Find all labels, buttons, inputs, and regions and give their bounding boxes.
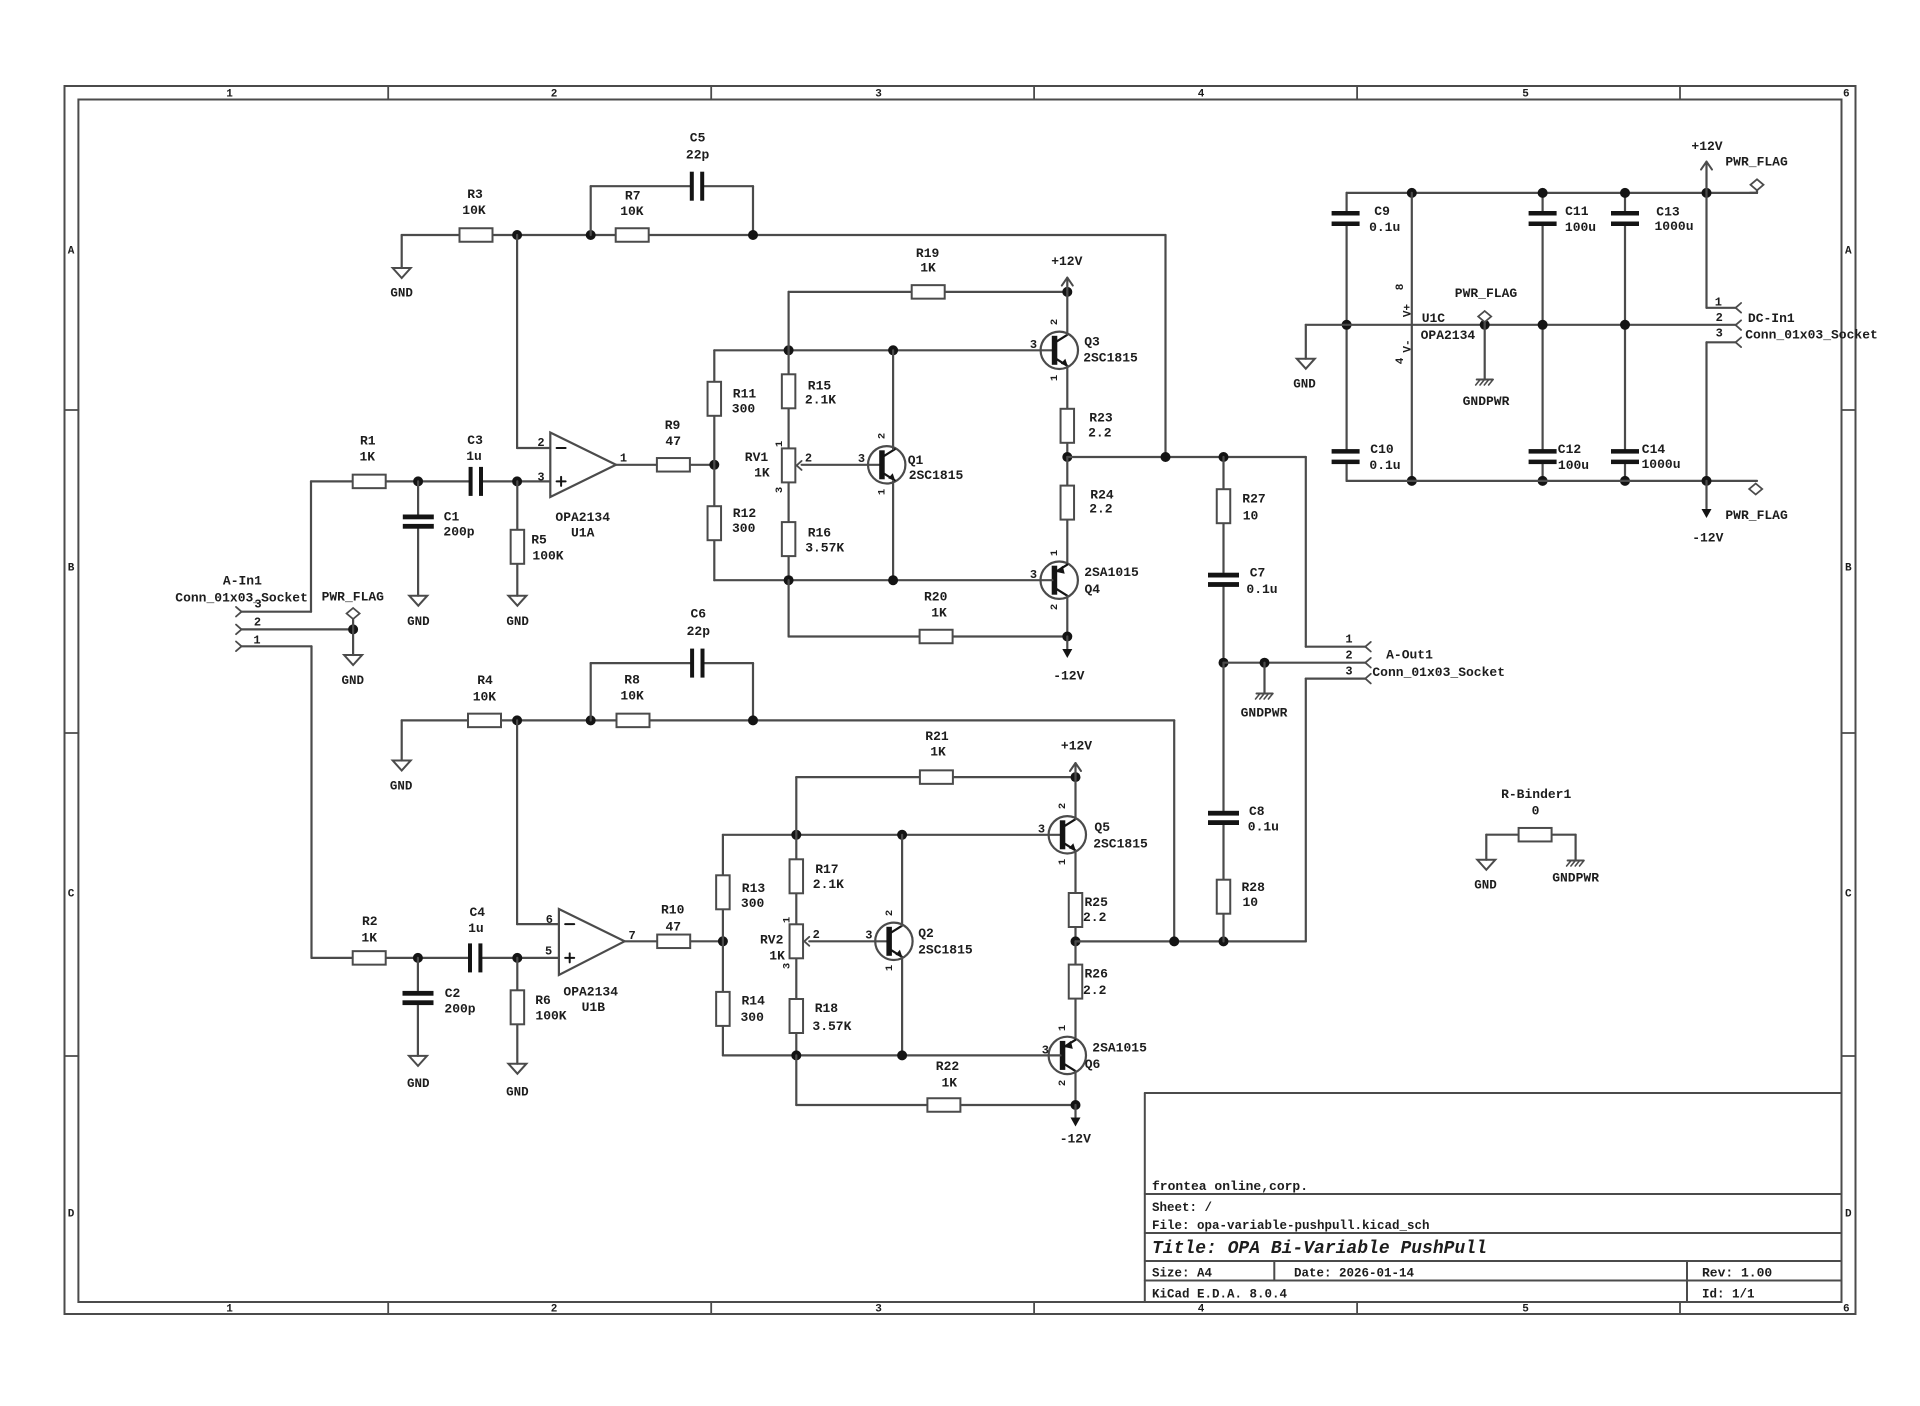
node junction R4 out <box>512 715 522 725</box>
svg-text:C: C <box>1845 889 1852 901</box>
resistor R6 <box>511 990 525 1024</box>
svg-text:Date: 2026-01-14: Date: 2026-01-14 <box>1294 1267 1415 1281</box>
wire PSU left rail C9 C10 <box>1345 193 1347 211</box>
svg-text:22p: 22p <box>687 624 711 639</box>
wire Q5 emitter to R25 <box>1074 851 1076 942</box>
svg-text:C13: C13 <box>1656 204 1680 219</box>
svg-text:300: 300 <box>741 896 765 911</box>
svg-text:4: 4 <box>1395 357 1407 364</box>
svg-text:Conn_01x03_Socket: Conn_01x03_Socket <box>1745 328 1878 343</box>
svg-text:3: 3 <box>865 928 872 942</box>
svg-text:2.2: 2.2 <box>1089 501 1113 516</box>
svg-text:GND: GND <box>506 615 529 629</box>
svg-text:1u: 1u <box>468 921 484 936</box>
svg-text:2SC1815: 2SC1815 <box>909 468 964 483</box>
wire R20 branch <box>787 580 789 636</box>
svg-text:V-: V- <box>1403 339 1415 352</box>
svg-text:1K: 1K <box>754 465 770 480</box>
resistor R23 <box>1061 409 1075 443</box>
wire RV2 wiper to Q2 base <box>809 940 886 942</box>
connector DC-In1 <box>1736 303 1742 313</box>
svg-text:10K: 10K <box>620 689 644 704</box>
power +12V (B) <box>1071 772 1081 782</box>
svg-text:47: 47 <box>665 919 681 934</box>
svg-text:R24: R24 <box>1090 487 1114 502</box>
svg-text:1: 1 <box>877 489 889 495</box>
resistor R24 <box>1061 486 1075 520</box>
svg-text:47: 47 <box>665 434 681 449</box>
svg-text:2: 2 <box>1345 649 1352 663</box>
svg-text:1K: 1K <box>769 949 785 964</box>
svg-text:D: D <box>1845 1209 1852 1221</box>
ground GNDPWR (PSU) <box>1484 325 1486 379</box>
svg-text:R19: R19 <box>916 246 940 261</box>
wire feedback to output node <box>1164 235 1166 457</box>
svg-text:1: 1 <box>253 633 260 647</box>
svg-text:2: 2 <box>805 452 812 466</box>
svg-text:6: 6 <box>1843 1304 1850 1316</box>
resistor R11 <box>708 382 722 416</box>
svg-text:Q4: Q4 <box>1084 582 1100 597</box>
potentiometer RV2 <box>790 924 804 958</box>
op-amp U1C power unit <box>1407 188 1417 198</box>
ground GND (C2) <box>409 1056 427 1066</box>
svg-text:300: 300 <box>732 402 756 417</box>
wire A output row <box>1067 456 1306 458</box>
svg-text:1: 1 <box>1345 633 1352 647</box>
wire A base top rail <box>714 349 1052 351</box>
svg-text:R14: R14 <box>741 993 765 1008</box>
svg-text:C5: C5 <box>690 130 706 145</box>
node junction GNDPWR stub <box>1260 658 1270 668</box>
wire DC-In pin3 <box>1707 341 1736 343</box>
node junction C5 right <box>748 230 758 240</box>
node junction C11 top <box>1538 188 1548 198</box>
svg-text:3: 3 <box>1038 823 1045 837</box>
power +12V (A) <box>1062 287 1072 297</box>
svg-text:-12V: -12V <box>1060 1131 1091 1146</box>
svg-text:3: 3 <box>875 1304 882 1316</box>
svg-text:10K: 10K <box>473 690 497 705</box>
svg-text:C9: C9 <box>1374 204 1390 219</box>
wire B base top rail <box>723 834 1061 836</box>
svg-text:Q6: Q6 <box>1085 1057 1101 1072</box>
wire U1A output <box>616 464 714 466</box>
svg-text:R25: R25 <box>1084 895 1108 910</box>
svg-text:A: A <box>68 246 75 258</box>
svg-text:1: 1 <box>1057 859 1069 865</box>
svg-text:1: 1 <box>782 917 794 923</box>
wire A-Out pin3 to channel B <box>1306 677 1366 679</box>
svg-text:1000u: 1000u <box>1641 457 1680 472</box>
wire C2 down <box>417 958 419 991</box>
svg-text:GNDPWR: GNDPWR <box>1463 394 1510 409</box>
svg-text:1: 1 <box>774 441 786 447</box>
svg-text:B: B <box>68 563 75 575</box>
svg-text:Id: 1/1: Id: 1/1 <box>1702 1288 1755 1302</box>
svg-text:GND: GND <box>506 1086 529 1100</box>
op-amp U1B <box>559 909 625 975</box>
svg-text:Conn_01x03_Socket: Conn_01x03_Socket <box>175 590 308 605</box>
svg-text:R23: R23 <box>1089 410 1113 425</box>
svg-text:2: 2 <box>877 433 889 439</box>
resistor R16 <box>782 522 796 556</box>
node junction A output <box>1062 452 1072 462</box>
resistor R5 <box>511 530 525 564</box>
capacitor C13 <box>1611 211 1639 216</box>
capacitor C4 <box>468 943 472 972</box>
svg-text:1: 1 <box>884 965 896 971</box>
svg-text:1: 1 <box>1057 1025 1069 1031</box>
svg-text:10: 10 <box>1242 895 1258 910</box>
svg-text:R11: R11 <box>733 386 757 401</box>
transistor Q1 <box>868 446 905 483</box>
svg-text:0.1u: 0.1u <box>1369 458 1400 473</box>
power flag PWR_FLAG (PSU mid) <box>1480 320 1490 330</box>
svg-text:3: 3 <box>782 963 794 969</box>
wire Q4 collector <box>1066 596 1068 636</box>
wire R24 to Q4 <box>1066 457 1068 564</box>
wire op-amp pin6 <box>516 720 518 924</box>
svg-text:22p: 22p <box>686 147 710 162</box>
svg-text:Q2: Q2 <box>918 926 934 941</box>
node junction R17 top <box>791 830 801 840</box>
svg-text:2SC1815: 2SC1815 <box>1083 350 1138 365</box>
svg-text:C4: C4 <box>469 905 485 920</box>
resistor R15 <box>782 374 796 408</box>
wire R26 to Q6 <box>1074 941 1076 1039</box>
node junction R28 bottom <box>1219 936 1229 946</box>
transistor Q3 <box>1041 332 1078 369</box>
svg-text:3.57K: 3.57K <box>812 1019 851 1034</box>
svg-text:300: 300 <box>740 1010 764 1025</box>
svg-text:A-Out1: A-Out1 <box>1386 648 1433 663</box>
svg-text:+12V: +12V <box>1051 254 1082 269</box>
capacitor C14 <box>1611 449 1639 454</box>
node junction PSU GND <box>1342 320 1352 330</box>
node junction C14 bottom <box>1620 476 1630 486</box>
wire R27 C7 chain <box>1222 457 1224 572</box>
node junction R15 top <box>784 345 794 355</box>
wire U1B output <box>625 940 723 942</box>
svg-text:5: 5 <box>1522 88 1529 100</box>
wire PSU top rail <box>1347 192 1757 194</box>
resistor R18 <box>790 999 804 1033</box>
svg-text:GNDPWR: GNDPWR <box>1552 871 1599 886</box>
svg-text:200p: 200p <box>444 1001 475 1016</box>
svg-text:R-Binder1: R-Binder1 <box>1501 787 1571 802</box>
resistor R2 <box>353 951 386 965</box>
node junction C11 bottom <box>1538 320 1548 330</box>
wire C5 branch <box>590 186 592 235</box>
resistor R3 <box>460 228 493 242</box>
node junction R10 out <box>718 936 728 946</box>
svg-text:R16: R16 <box>808 525 832 540</box>
capacitor C9 <box>1332 211 1360 216</box>
svg-text:0.1u: 0.1u <box>1246 582 1277 597</box>
resistor R7 <box>616 228 649 242</box>
svg-text:R28: R28 <box>1241 880 1265 895</box>
wire Q3 collector <box>1066 292 1068 335</box>
svg-text:6: 6 <box>1843 88 1850 100</box>
svg-text:-12V: -12V <box>1053 668 1084 683</box>
wire RV1 wiper to Q1 base <box>802 464 880 466</box>
svg-text:File: opa-variable-pushpull.ki: File: opa-variable-pushpull.kicad_sch <box>1152 1219 1430 1233</box>
svg-text:R20: R20 <box>924 589 948 604</box>
svg-text:Size: A4: Size: A4 <box>1152 1267 1213 1281</box>
svg-text:2: 2 <box>1049 319 1061 325</box>
svg-text:frontea online,corp.: frontea online,corp. <box>1152 1179 1308 1194</box>
node junction R27 top <box>1219 452 1229 462</box>
resistor R14 <box>716 992 730 1026</box>
wire R17 RV2 R18 rail <box>795 835 797 1056</box>
svg-text:1: 1 <box>1715 296 1722 310</box>
svg-text:DC-In1: DC-In1 <box>1748 311 1795 326</box>
svg-text:GND: GND <box>390 780 413 794</box>
node junction -12V (B) <box>1071 1100 1081 1110</box>
wire op-amp pin2 <box>516 235 518 448</box>
svg-text:C3: C3 <box>467 433 483 448</box>
wire A-In pin1 to channel B <box>242 645 312 647</box>
svg-text:R3: R3 <box>467 187 483 202</box>
svg-text:3: 3 <box>1345 665 1352 679</box>
node junction Q2 collector rail <box>897 830 907 840</box>
svg-text:2: 2 <box>551 88 558 100</box>
svg-text:-12V: -12V <box>1692 530 1723 545</box>
svg-text:0.1u: 0.1u <box>1369 220 1400 235</box>
capacitor C1 <box>403 515 434 520</box>
power +12V (PSU) <box>1702 188 1712 198</box>
power -12V (A) <box>1066 637 1068 649</box>
wire R22 branch <box>795 1055 797 1105</box>
svg-text:C8: C8 <box>1249 804 1265 819</box>
svg-text:Q1: Q1 <box>908 453 924 468</box>
node junction Q1 collector rail <box>888 345 898 355</box>
node junction B output <box>1071 936 1081 946</box>
capacitor C11 <box>1529 211 1557 216</box>
svg-text:U1A: U1A <box>571 525 595 540</box>
wire A bottom rail <box>714 579 1052 581</box>
wire C11 C12 rail <box>1541 193 1543 211</box>
svg-text:3: 3 <box>1716 327 1723 341</box>
svg-text:R7: R7 <box>625 188 641 203</box>
wire Q6 collector <box>1074 1071 1076 1105</box>
wire C1 down <box>417 481 419 514</box>
ground GND (C1) <box>409 596 427 606</box>
svg-text:OPA2134: OPA2134 <box>563 984 618 999</box>
svg-text:R27: R27 <box>1242 491 1265 506</box>
resistor R25 <box>1069 893 1083 927</box>
svg-text:R12: R12 <box>733 506 757 521</box>
svg-text:C12: C12 <box>1558 442 1582 457</box>
node junction -12V (A) <box>1062 632 1072 642</box>
svg-text:2.2: 2.2 <box>1083 983 1107 998</box>
wire C8 R28 chain <box>1222 663 1224 811</box>
svg-text:4: 4 <box>1198 88 1205 100</box>
svg-text:C11: C11 <box>1565 204 1589 219</box>
svg-text:PWR_FLAG: PWR_FLAG <box>322 589 385 604</box>
svg-text:R5: R5 <box>531 532 547 547</box>
resistor R28 <box>1217 880 1231 914</box>
resistor R13 <box>716 875 730 909</box>
svg-text:2SC1815: 2SC1815 <box>1093 836 1148 851</box>
resistor R22 <box>927 1098 960 1112</box>
node junction C5 left <box>586 230 596 240</box>
svg-text:2: 2 <box>884 910 896 916</box>
wire DC-In pin1 <box>1705 193 1707 308</box>
svg-text:GND: GND <box>407 1077 430 1091</box>
svg-text:C10: C10 <box>1370 442 1394 457</box>
power -12V (B) <box>1074 1105 1076 1117</box>
svg-text:R9: R9 <box>665 418 681 433</box>
power -12V (PSU) <box>1705 481 1707 509</box>
svg-text:Q3: Q3 <box>1084 334 1100 349</box>
capacitor C3 <box>469 467 473 496</box>
svg-text:2: 2 <box>813 928 820 942</box>
svg-text:1: 1 <box>1049 550 1061 556</box>
wire B input <box>312 957 469 959</box>
svg-text:U1C: U1C <box>1422 311 1446 326</box>
wire C13 C14 rail <box>1624 193 1626 211</box>
power flag PWR_FLAG (A-In) <box>352 619 354 629</box>
svg-text:100K: 100K <box>532 548 563 563</box>
potentiometer RV1 <box>782 448 796 482</box>
wire Q3 emitter to R23 <box>1066 366 1068 457</box>
capacitor C5 <box>690 172 694 201</box>
svg-text:R22: R22 <box>936 1059 960 1074</box>
svg-text:B: B <box>1845 563 1852 575</box>
ground GND (R5) <box>508 596 526 606</box>
wire B output row <box>1076 940 1306 942</box>
node junction U1C V- <box>1407 476 1417 486</box>
wire B feedback to output node <box>1173 720 1175 941</box>
ground GND (A feedback) <box>393 268 411 278</box>
svg-text:Title: OPA Bi-Variable PushPul: Title: OPA Bi-Variable PushPull <box>1152 1239 1487 1259</box>
wire A-Out pin2 row <box>1224 662 1366 664</box>
svg-text:2: 2 <box>1049 604 1061 610</box>
wire C6 branch <box>590 663 592 720</box>
node junction R3 out <box>512 230 522 240</box>
transistor Q4 (PNP) <box>1041 562 1078 599</box>
node junction C13 top <box>1620 188 1630 198</box>
svg-text:3: 3 <box>1030 338 1037 352</box>
svg-text:10K: 10K <box>462 203 486 218</box>
svg-text:2.2: 2.2 <box>1088 425 1112 440</box>
node junction B fb drop <box>1169 936 1179 946</box>
svg-text:C14: C14 <box>1642 442 1666 457</box>
node junction C7 bottom <box>1219 658 1229 668</box>
node junction R18 bottom <box>791 1050 801 1060</box>
capacitor C2 <box>403 991 434 996</box>
node junction R9 out <box>709 460 719 470</box>
svg-text:1K: 1K <box>941 1076 957 1091</box>
wire A output to A-Out pin1 <box>1305 457 1307 647</box>
svg-text:C: C <box>68 889 75 901</box>
node junction -12V (PSU) <box>1702 476 1712 486</box>
svg-text:R6: R6 <box>535 993 551 1008</box>
svg-text:2.1K: 2.1K <box>805 393 836 408</box>
ground GND (PSU) <box>1297 359 1315 369</box>
svg-text:1: 1 <box>226 88 233 100</box>
resistor R9 <box>657 458 690 472</box>
svg-text:C2: C2 <box>445 986 461 1001</box>
resistor R21 <box>920 770 953 784</box>
svg-text:2.1K: 2.1K <box>813 877 844 892</box>
svg-text:6: 6 <box>546 913 553 927</box>
svg-text:2: 2 <box>1716 311 1723 325</box>
svg-text:A: A <box>1845 246 1852 258</box>
wire R-Binder1 <box>1486 834 1518 836</box>
svg-text:2: 2 <box>1057 1080 1069 1086</box>
transistor Q2 <box>875 923 912 960</box>
title block <box>1144 1093 1146 1302</box>
node junction C12 bottom <box>1538 476 1548 486</box>
node junction C6 left <box>586 715 596 725</box>
wire R15 RV1 R16 rail <box>787 350 789 580</box>
svg-text:R8: R8 <box>624 673 640 688</box>
svg-text:1u: 1u <box>466 449 482 464</box>
transistor Q5 <box>1049 816 1086 853</box>
svg-text:Sheet: /: Sheet: / <box>1152 1201 1212 1215</box>
svg-text:R15: R15 <box>808 378 832 393</box>
svg-text:1: 1 <box>226 1304 233 1316</box>
node junction A-In pin2 <box>348 624 358 634</box>
svg-text:1K: 1K <box>359 450 375 465</box>
svg-text:A-In1: A-In1 <box>223 573 262 588</box>
resistor R8 <box>617 714 650 728</box>
svg-text:2: 2 <box>254 616 261 630</box>
svg-text:C6: C6 <box>690 606 706 621</box>
svg-text:5: 5 <box>1522 1304 1529 1316</box>
node junction C13 bottom <box>1620 320 1630 330</box>
svg-text:0: 0 <box>1532 804 1540 819</box>
wire A feedback rail <box>402 234 591 236</box>
power flag PWR_FLAG (PSU top) <box>1750 192 1757 194</box>
wire R6 down <box>516 958 518 1064</box>
svg-text:C1: C1 <box>444 509 460 524</box>
svg-text:300: 300 <box>732 521 756 536</box>
svg-text:10: 10 <box>1243 508 1259 523</box>
svg-text:3.57K: 3.57K <box>805 540 844 555</box>
wire A-In pin2 <box>242 628 354 630</box>
resistor R4 <box>468 714 501 728</box>
svg-text:100u: 100u <box>1565 220 1596 235</box>
svg-text:3: 3 <box>537 471 544 485</box>
node junction C6 right <box>748 715 758 725</box>
svg-text:3: 3 <box>875 88 882 100</box>
svg-text:+12V: +12V <box>1691 139 1722 154</box>
svg-text:2SA1015: 2SA1015 <box>1084 565 1139 580</box>
svg-text:Conn_01x03_Socket: Conn_01x03_Socket <box>1372 665 1505 680</box>
wire PSU bottom rail <box>1347 480 1757 482</box>
connector A-In1 <box>236 607 242 617</box>
svg-text:PWR_FLAG: PWR_FLAG <box>1455 286 1518 301</box>
svg-text:2: 2 <box>1057 803 1069 809</box>
capacitor C7 <box>1208 573 1239 578</box>
svg-text:R21: R21 <box>925 729 949 744</box>
ground GND (R-Binder1) <box>1477 860 1495 870</box>
svg-text:1K: 1K <box>930 745 946 760</box>
svg-text:1: 1 <box>620 452 627 466</box>
svg-text:GND: GND <box>1293 378 1316 392</box>
connector A-Out1 <box>1365 642 1371 652</box>
svg-text:GND: GND <box>407 615 430 629</box>
wire PSU GND branch <box>1306 324 1347 326</box>
wire A input <box>242 611 312 613</box>
svg-text:2SA1015: 2SA1015 <box>1092 1040 1147 1055</box>
svg-text:0.1u: 0.1u <box>1248 820 1279 835</box>
resistor R27 <box>1217 489 1231 523</box>
